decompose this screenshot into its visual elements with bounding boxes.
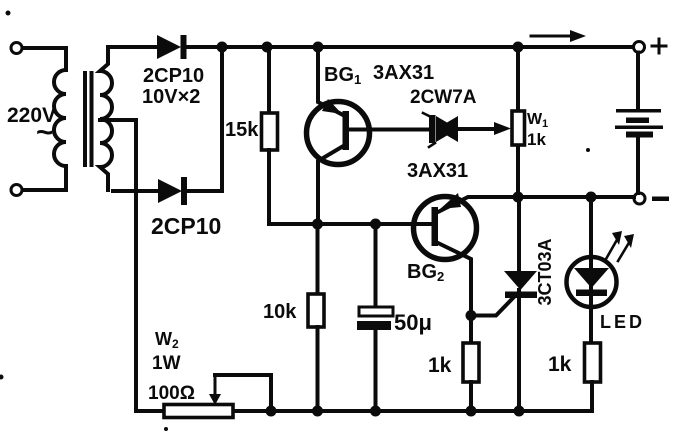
resistor 1k left [463,343,479,382]
BG2 emitter arrow [440,193,461,209]
LED wire top [589,197,593,343]
svg-text:10V×2: 10V×2 [142,86,200,108]
battery wire bottom [636,138,640,194]
potentiometer W1 [516,47,520,197]
wire 10k bottom [316,327,320,411]
node junction 376,224 [370,219,381,230]
LED triangle [574,268,609,288]
W2 wiper wire [215,375,271,411]
svg-text:1: 1 [354,72,361,87]
transformer core [83,71,87,167]
W2 wiper arrow [214,375,217,396]
transformer secondary winding [100,47,112,190]
wire BG2 collector down [438,243,471,316]
wire 1k left top [469,316,473,344]
node junction 591,197 [586,192,597,203]
svg-text:W: W [527,111,543,128]
node junction 316,411 [312,406,323,417]
thyristor wire bottom [517,290,521,411]
svg-text:3AX31: 3AX31 [373,62,434,84]
zener diode 2CW7A [436,116,458,142]
resistor 15k [262,113,278,150]
svg-text:LED: LED [600,312,645,332]
potentiometer W2 body [164,405,233,418]
label minus [652,197,669,202]
transistor Q2 BG2 circle [414,197,477,260]
battery plates [616,109,661,113]
svg-text:BG: BG [324,64,354,86]
label plus [652,39,666,53]
terminal input bottom [11,185,22,196]
LED cathode bar [576,290,607,297]
node junction top rail x267 [262,42,273,53]
wire secondary top to diode [108,45,157,49]
label battery note chinese [0,0,1,1]
svg-text:W: W [155,329,172,349]
capacitor 50u plates [359,307,393,316]
node junction gate 471,316 [466,310,477,321]
transformer primary winding [54,70,66,166]
wire 1k left bottom [469,382,473,411]
svg-text:100Ω: 100Ω [148,383,195,404]
wire bottom rail [136,409,590,413]
speck [586,148,590,152]
node junction 375,411 [370,406,381,417]
LED circle [567,257,617,307]
diode D2 2CP10 bottom [158,179,182,203]
wire BG1 base to zener [349,128,432,132]
diode D1 2CP10 top [157,35,181,59]
speck [6,11,11,16]
resistor 1k right [585,343,601,382]
wire 15k top [267,47,271,113]
speck [164,427,168,431]
thyristor cathode bar [505,292,537,299]
svg-text:1k: 1k [527,130,546,149]
transistor BG1 base bar [343,111,350,150]
terminal minus [634,193,645,204]
terminal + [634,42,645,53]
svg-text:50μ: 50μ [394,310,432,335]
svg-text:BG: BG [407,261,437,283]
wire top rail [186,45,633,49]
svg-text:1: 1 [542,118,548,130]
capacitor wire bottom [374,330,378,411]
wire BG1 emitter from top rail [318,47,345,116]
speck [0,375,4,380]
node junction 519,411 [514,406,525,417]
label charging current chinese [0,0,1,1]
terminal input top [11,43,22,54]
node junction 471,411 [466,406,477,417]
thyristor 3CT03A wire top [517,197,521,272]
resistor 10k [308,294,324,327]
node junction top rail x518 [513,42,524,53]
wire [23,48,67,70]
node junction top rail x222 [217,42,228,53]
svg-text:2CP10: 2CP10 [143,65,204,87]
wire BG2 emitter to right rail [438,197,634,212]
wire 15k bottom to base line [269,150,430,224]
wire secondary bottom to diode D2 [113,189,158,193]
wire BG1 collector down [318,145,345,224]
svg-text:2CW7A: 2CW7A [410,87,477,108]
LED emission arrows [606,238,618,259]
wire 10k top [316,224,320,294]
wire 1k right bottom to rail [590,382,592,411]
node junction 271,411 [266,406,277,417]
svg-text:3CT03A: 3CT03A [535,238,555,305]
node junction 318,224 [312,219,323,230]
wire diode D2 to top rail [187,47,222,191]
node junction 518,197 [513,192,524,203]
svg-text:1k: 1k [428,354,452,377]
thyristor gate wire [471,298,513,316]
node junction top rail x318 [313,42,324,53]
svg-text:15k: 15k [225,119,259,141]
wire secondary center tap [100,120,136,411]
BG1 emitter arrow [322,99,342,114]
svg-text:10k: 10k [263,301,297,323]
transistor BG2 base bar [432,207,439,246]
svg-text:2: 2 [437,269,444,284]
svg-text:1k: 1k [548,353,572,376]
svg-text:3AX31: 3AX31 [407,160,468,182]
charge current arrow [531,35,580,38]
svg-text:2: 2 [172,337,179,351]
wire [23,166,67,190]
svg-text:2CP10: 2CP10 [151,213,221,239]
capacitor C1 50u wire top [374,224,378,308]
thyristor triangle [504,271,537,290]
svg-text:1W: 1W [152,353,181,374]
transistor Q1 BG1 circle [307,102,370,165]
battery B1 wire top [636,53,640,111]
wire zener to W1 wiper with arrow [458,127,496,131]
zener triangle [436,116,458,142]
svg-text:~: ~ [36,116,54,149]
